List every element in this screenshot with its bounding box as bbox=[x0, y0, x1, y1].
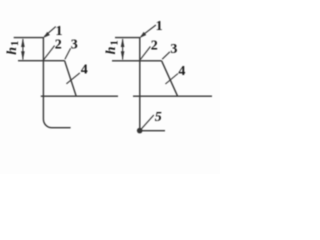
svg-text:h1: h1 bbox=[5, 41, 21, 55]
svg-text:4: 4 bbox=[178, 64, 185, 79]
left fig: lower line of upper sheet bbox=[18, 60, 65, 62]
svg-text:3: 3 bbox=[170, 42, 177, 57]
left fig: dimension arrowhead up bbox=[21, 38, 25, 47]
right fig: top edge line of upper sheet bbox=[115, 37, 141, 39]
leader to label 3 (right) bbox=[162, 52, 170, 59]
svg-text:2: 2 bbox=[151, 39, 158, 54]
svg-text:5: 5 bbox=[155, 110, 162, 125]
leader to label 4 (right) bbox=[165, 74, 178, 85]
right fig: dimension arrowhead up bbox=[121, 38, 125, 47]
leader to label 2 (left) bbox=[44, 46, 55, 60]
svg-text:4: 4 bbox=[81, 63, 88, 78]
right fig: lower line of upper sheet bbox=[112, 60, 162, 62]
right fig: weld bead slant edge bbox=[162, 61, 178, 96]
right fig: dimension arrowhead down bbox=[121, 51, 125, 60]
leader to label 5 (right) bbox=[142, 115, 154, 129]
leader to label 1 (left) bbox=[44, 27, 56, 37]
right fig: horizontal line from root point bbox=[140, 130, 165, 132]
right fig: vertical edge of upper sheet, continues to dot bbox=[139, 37, 141, 129]
svg-text:h1: h1 bbox=[104, 40, 120, 54]
left fig: lower sheet curved flange edge bbox=[43, 96, 70, 128]
svg-text:3: 3 bbox=[71, 38, 78, 53]
leader to label 1 (right) bbox=[141, 25, 156, 36]
left fig: dimension arrowhead down bbox=[21, 51, 25, 60]
left fig: vertical edge of upper sheet bbox=[42, 37, 44, 96]
right fig: leader 1 filled arrowhead bbox=[140, 32, 147, 38]
right fig: weld root point (dot) bbox=[137, 128, 143, 134]
left fig: lower sheet top surface line bbox=[41, 95, 118, 97]
right fig: dimension line h1 bbox=[122, 39, 124, 60]
leader to label 2 (right) bbox=[140, 47, 150, 60]
leader to label 3 (left) bbox=[65, 48, 71, 59]
left fig: weld bead slant edge bbox=[65, 61, 77, 96]
left fig: leader 1 filled arrowhead bbox=[43, 32, 50, 38]
right fig: lower sheet top surface line bbox=[133, 95, 212, 97]
left fig: dimension line h1 bbox=[22, 39, 24, 60]
leader to label 4 (left) bbox=[66, 73, 79, 84]
svg-text:2: 2 bbox=[55, 38, 62, 53]
svg-text:1: 1 bbox=[156, 19, 163, 34]
left fig: top edge line of flanged sheet bbox=[14, 37, 44, 39]
